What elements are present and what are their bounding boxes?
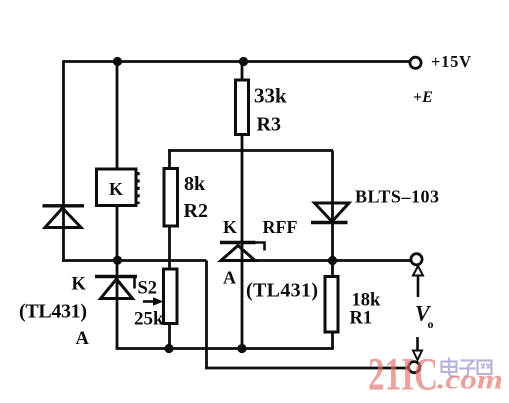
resistor R2 — [164, 169, 178, 227]
svg-text:.com: .com — [437, 365, 503, 395]
svg-text:R2: R2 — [184, 200, 208, 222]
svg-text:(TL431): (TL431) — [246, 280, 318, 302]
wire bottom common — [116, 347, 334, 350]
svg-text:+E: +E — [413, 89, 433, 106]
junction mid right — [328, 256, 337, 265]
svg-text:R3: R3 — [257, 114, 281, 136]
wire R2 bottom to S2 — [168, 226, 171, 269]
wire row y150 — [169, 149, 334, 152]
junction S2 bottom — [164, 344, 173, 353]
label 25k — [134, 309, 164, 330]
resistor R3 — [236, 80, 249, 135]
label R2 — [184, 200, 208, 222]
svg-text:o: o — [428, 317, 434, 331]
label R3 — [257, 114, 281, 136]
svg-text:K: K — [72, 275, 87, 295]
diode D1 left — [43, 206, 85, 228]
wire bottom output — [205, 367, 409, 370]
TL431 U2 left — [95, 277, 137, 299]
svg-text:K: K — [109, 179, 123, 199]
arrow Vo lower — [413, 337, 422, 360]
label R1 — [350, 309, 373, 329]
potentiometer S2 body — [164, 269, 178, 324]
svg-text:21IC: 21IC — [368, 349, 438, 401]
wire relay feed — [116, 62, 119, 349]
svg-text:33k: 33k — [254, 84, 287, 108]
terminal +15V — [410, 57, 421, 68]
svg-text:K: K — [223, 217, 237, 237]
label 33k — [254, 84, 287, 108]
svg-text:18k: 18k — [352, 291, 382, 311]
junction center bottom — [237, 344, 246, 353]
wire mid-left vertical down — [205, 261, 208, 369]
wire left rail upper — [62, 60, 65, 262]
junction left mid — [113, 256, 122, 265]
wire BLTS vertical — [331, 151, 334, 349]
wire mid output row — [220, 259, 410, 262]
svg-text:A: A — [76, 329, 90, 349]
relay K — [97, 169, 139, 206]
resistor R1 — [325, 277, 338, 333]
wire R2 top lead — [168, 149, 171, 169]
junction top-left — [113, 57, 122, 66]
svg-text:BLTS–103: BLTS–103 — [355, 187, 439, 207]
terminal output mid — [411, 254, 422, 265]
label BLTS-103 — [355, 187, 439, 207]
wire bottom-left horizontal — [62, 259, 206, 262]
watermark .com — [437, 365, 503, 395]
svg-text:R1: R1 — [350, 309, 373, 329]
label (TL431) left — [19, 301, 87, 323]
watermark dianziwang — [442, 358, 492, 377]
label K left — [72, 275, 87, 295]
svg-text:A: A — [223, 268, 236, 288]
wire S2 bottom lead — [168, 323, 171, 349]
label (TL431) right — [246, 280, 318, 302]
label 8k — [184, 173, 206, 195]
label 18k — [352, 291, 382, 311]
label A left — [76, 329, 90, 349]
label RFF — [263, 217, 298, 237]
wire center column — [241, 62, 244, 349]
label K RFF — [223, 217, 237, 237]
terminal output bottom — [409, 362, 420, 373]
label Vo — [415, 301, 434, 332]
TL431 U1 RFF — [220, 243, 265, 261]
potentiometer S2 wiper arrow — [143, 297, 164, 305]
watermark 21IC — [368, 349, 438, 401]
label A RFF — [223, 268, 236, 288]
label +15V — [431, 52, 471, 71]
svg-text:RFF: RFF — [263, 217, 298, 237]
svg-text:(TL431): (TL431) — [19, 301, 87, 323]
svg-text:25k: 25k — [134, 309, 164, 330]
junction above R3 — [239, 57, 248, 66]
svg-text:S2: S2 — [138, 279, 158, 299]
label +E — [413, 89, 433, 106]
svg-text:+15V: +15V — [431, 52, 471, 71]
svg-text:8k: 8k — [184, 173, 206, 195]
label S2 — [138, 279, 158, 299]
wire top rail — [64, 60, 410, 63]
diode BLTS-103 — [311, 203, 349, 223]
arrow Vo upper — [413, 266, 423, 297]
